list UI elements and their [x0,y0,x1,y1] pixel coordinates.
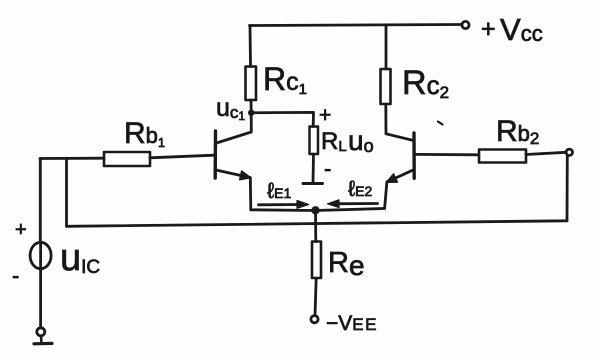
svg-text:Rc2: Rc2 [402,64,449,102]
resistor Rb2 [479,150,526,163]
wire base T1 from Rb1 [150,155,214,158]
svg-text:ℓE1: ℓE1 [267,178,291,203]
source U_IC circle [30,242,51,268]
wire uc1 to RL top [251,112,313,126]
wire Re bottom lead [315,278,316,316]
svg-text:Rb2: Rb2 [496,115,539,148]
wire RC2 top lead [385,25,388,69]
terminal ground bar [34,342,52,346]
wire Rb2 right lead [526,152,566,154]
svg-text:uIC: uIC [60,237,100,279]
transistor T1 emitter arrowhead [240,171,251,180]
wire RC2 bottom lead [384,104,387,134]
svg-text:Rc1: Rc1 [263,61,307,98]
transistor T1 collector [217,113,252,143]
stray mark [438,122,443,125]
svg-text:-: - [12,263,19,288]
wire right side down [566,156,569,221]
transistor T2 emitter [388,170,414,182]
svg-text:Rb1: Rb1 [124,117,165,150]
wire base T2 to Rb2 [416,153,479,156]
wire T2 emitter lead down [385,182,387,209]
terminal right open circle [566,149,572,155]
wire input corner down to source [39,159,42,244]
svg-text:uo: uo [348,125,374,156]
wire RC1 bottom lead to node uc1 [250,100,253,113]
terminal ground stem [40,336,43,343]
transistor T1 base bar [213,131,217,178]
wire emitter junction horizontal [251,209,384,211]
svg-text:+: + [481,15,496,43]
wire bottom feedback [67,221,568,227]
svg-text:RL: RL [321,128,347,155]
node uc1 junction [249,111,253,115]
svg-text:Re: Re [328,247,365,281]
wire branch down from input [65,158,68,226]
arrow current IE1 [259,203,306,206]
svg-text:Vcc: Vcc [500,12,543,47]
transistor T2 base bar [412,133,416,178]
wire node to Re [314,211,317,242]
wire T1 emitter lead down [249,178,252,210]
wire input left to Rb1 [40,157,104,160]
svg-text:-: - [324,156,331,181]
resistor RC1 [246,67,257,101]
transistor T2 collector [386,134,414,141]
resistor RC2 [381,69,391,104]
svg-text:+: + [15,219,27,241]
svg-text:−VEE: −VEE [326,312,378,335]
resistor RL [310,127,319,155]
svg-text:uc1: uc1 [216,94,245,123]
wire RC1 top lead [249,26,252,67]
terminal bar under RL [303,182,323,185]
resistor Rb1 [104,152,150,166]
svg-text:ℓE2: ℓE2 [348,176,372,201]
terminal -VEE circle [311,316,318,323]
node emitter junction [313,208,319,214]
wire RL bottom lead [312,154,315,183]
svg-text:+: + [319,104,331,127]
resistor Re [312,242,321,279]
wire top supply rail [250,25,463,26]
arrow current IE2 [331,202,378,205]
transistor T2 emitter arrowhead [386,174,397,183]
terminal +Vcc open circle [462,21,469,28]
wire through source down [39,243,42,328]
transistor T1 emitter [216,170,249,177]
terminal ground circle [37,328,45,336]
